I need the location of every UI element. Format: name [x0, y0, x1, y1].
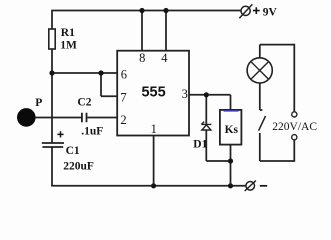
lamp X filament [251, 62, 268, 79]
diode D1 zener [201, 122, 211, 130]
node D1/Ks bottom junction [228, 158, 233, 163]
capacitor C1 plates [42, 143, 64, 147]
svg-text:3: 3 [182, 87, 188, 101]
node R1 bottom junction [49, 70, 54, 75]
svg-text:8: 8 [139, 51, 145, 65]
relay Ks box [220, 110, 242, 145]
svg-text:4: 4 [161, 51, 168, 65]
svg-text:2: 2 [120, 113, 126, 127]
node D1 top junction [204, 92, 209, 97]
wire lamp upper lead [259, 45, 261, 58]
switch Ks contact blade [259, 116, 266, 131]
wire Ks bottom down [230, 145, 232, 186]
wire bottom rail [51, 185, 246, 187]
svg-text:1: 1 [151, 122, 157, 136]
terminal +9V [241, 6, 250, 15]
resistor R1 [49, 29, 55, 49]
wire C1 to bottom rail [51, 147, 53, 186]
node P input terminal [17, 108, 36, 127]
svg-text:D1: D1 [193, 139, 207, 151]
node pin8 top rail junction [139, 8, 144, 13]
terminal 220V/AC upper [292, 112, 297, 117]
svg-text:9V: 9V [263, 6, 278, 18]
wire lamp lower lead to switch [260, 83, 263, 110]
wire D1 bottom to Ks bottom [206, 130, 230, 161]
wire lamp loop right lower [293, 140, 295, 162]
capacitor C1 polarity plus [57, 131, 63, 137]
op-amp U1 555 timer body [117, 51, 189, 136]
svg-text:P: P [35, 97, 42, 109]
wire lamp loop bottom [260, 160, 295, 162]
svg-text:Ks: Ks [225, 124, 239, 136]
wire pin7 jog [101, 73, 117, 96]
lamp [247, 58, 272, 83]
wire Ks top [230, 95, 232, 110]
wire D1 top drop [205, 95, 207, 124]
wire pin8 up [141, 11, 143, 51]
svg-text:1M: 1M [60, 39, 77, 51]
svg-text:7: 7 [120, 91, 126, 105]
svg-text:C2: C2 [77, 97, 91, 109]
wire pin1 down [153, 136, 155, 186]
node Ks bottom rail junction [228, 183, 233, 188]
svg-text:.1uF: .1uF [81, 125, 103, 137]
net minus label [260, 185, 267, 187]
node pin4 top rail junction [163, 8, 168, 13]
node pin1 bottom rail junction [151, 183, 156, 188]
wire pin3 right [189, 94, 231, 96]
node pin6/7 junction [98, 70, 103, 75]
wire P to C2 [35, 117, 81, 119]
wire lamp loop top [260, 44, 295, 46]
wire below switch [259, 133, 261, 161]
svg-text:555: 555 [141, 85, 165, 101]
wire left rail upper [51, 10, 53, 30]
wire pin4 up [165, 11, 167, 51]
svg-text:C1: C1 [66, 145, 80, 157]
terminal minus [246, 182, 255, 191]
svg-text:220V/AC: 220V/AC [272, 121, 317, 133]
capacitor C2 plates [82, 113, 87, 122]
svg-text:R1: R1 [61, 27, 75, 39]
svg-text:220uF: 220uF [63, 160, 94, 172]
wire left rail mid [51, 49, 53, 144]
relay Ks blue top edge [224, 110, 239, 112]
wire C2 to pin2 [87, 117, 117, 119]
wire top rail [52, 10, 241, 12]
net +9V label plus sign [253, 7, 260, 14]
terminal 220V/AC lower [292, 135, 297, 140]
wire lamp loop right upper [293, 44, 295, 112]
wire pin6 horizontal [52, 72, 117, 74]
svg-text:6: 6 [121, 68, 127, 82]
